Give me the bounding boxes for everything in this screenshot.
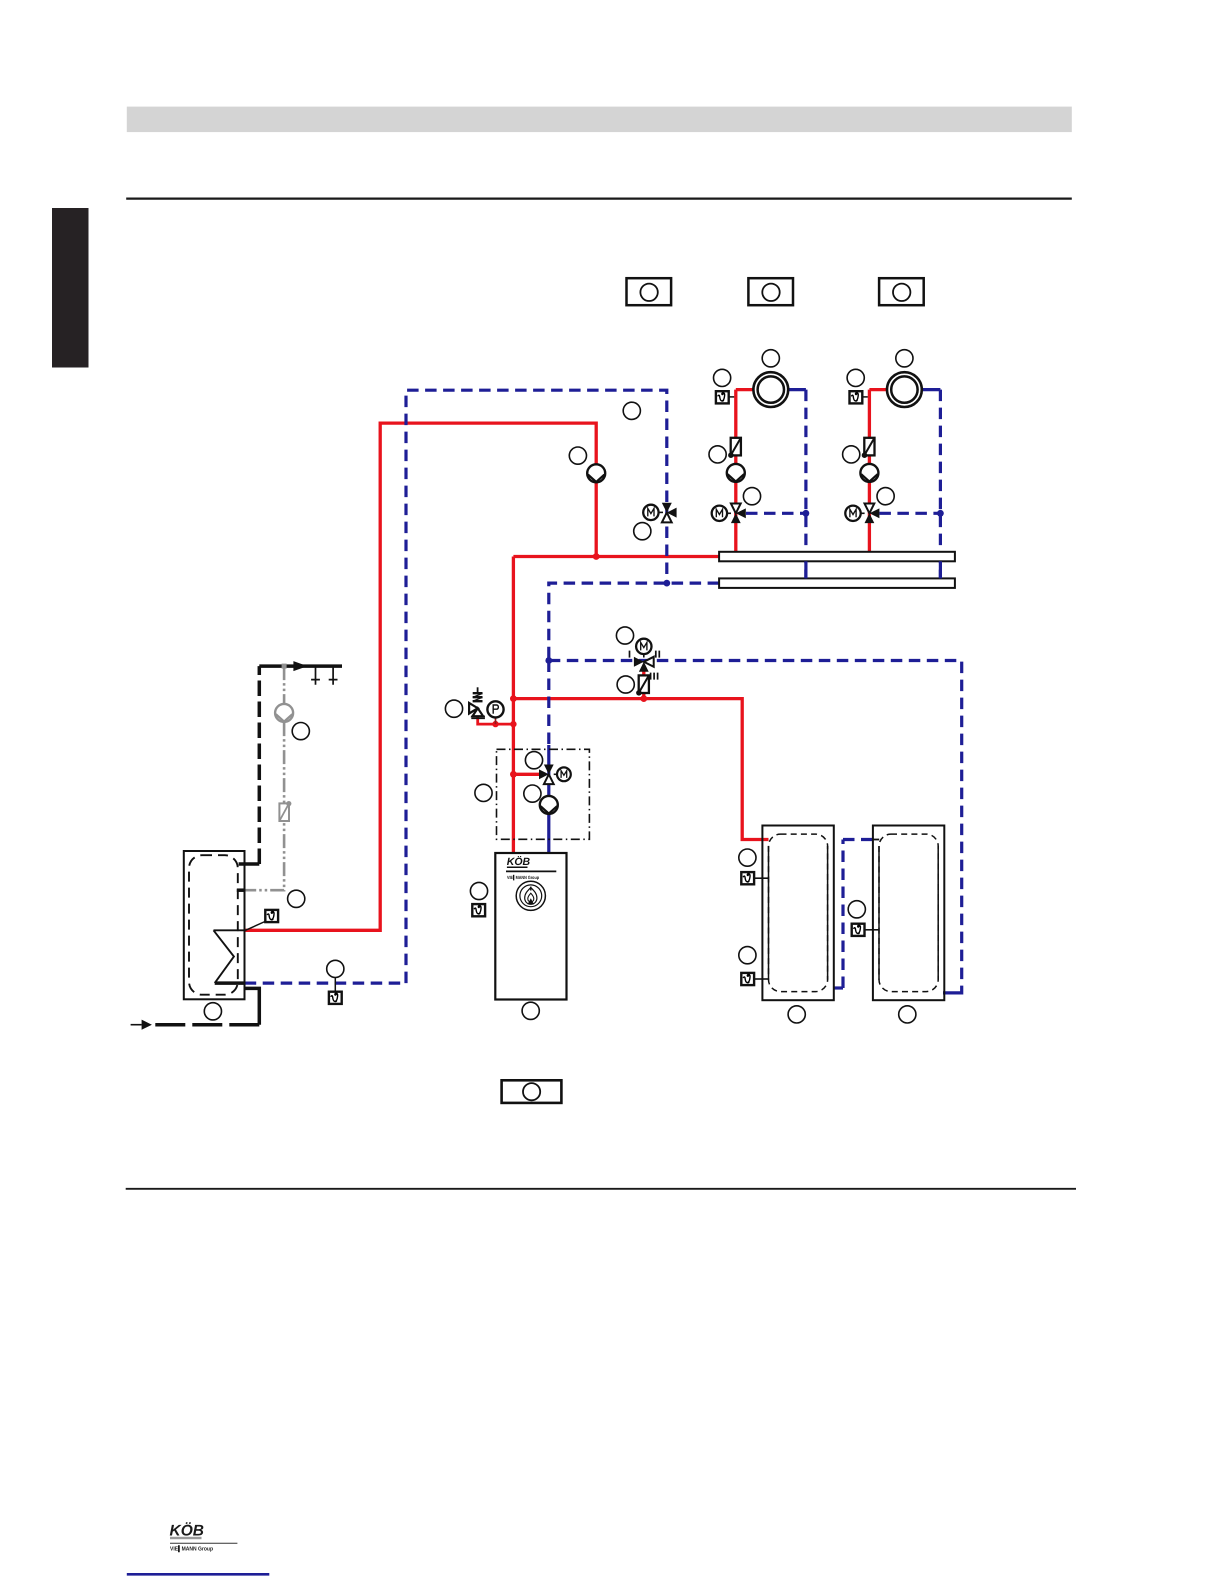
svg-text:VIE▌MANN Group: VIE▌MANN Group — [507, 874, 539, 881]
svg-text:KÖB: KÖB — [507, 856, 531, 868]
svg-text:VIE▌MANN Group: VIE▌MANN Group — [170, 1545, 213, 1553]
svg-text:KÖB: KÖB — [170, 1521, 204, 1539]
